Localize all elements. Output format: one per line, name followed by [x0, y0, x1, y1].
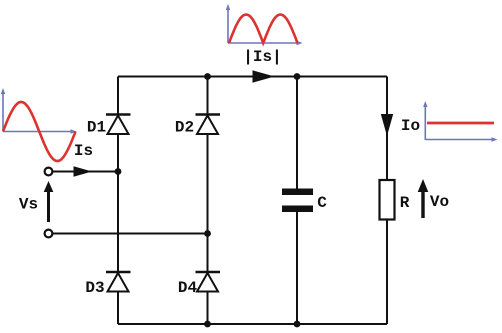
svg-text:D3: D3 — [85, 279, 104, 297]
waveform Io dc line — [427, 122, 494, 125]
svg-text:R: R — [400, 194, 410, 212]
capacitor C plates — [282, 189, 313, 213]
waveform Io axes — [423, 101, 497, 142]
waveform |Is| rectified curve — [229, 15, 298, 44]
voltage arrow Vo — [418, 179, 429, 218]
svg-text:Vo: Vo — [430, 193, 449, 211]
wire resistor branch — [386, 77, 388, 325]
junction node top capacitor branch — [294, 73, 301, 80]
wire input top — [53, 171, 118, 173]
current arrow Is — [74, 166, 93, 177]
diode D2 — [196, 115, 221, 135]
current arrow |Is| on top bus — [253, 70, 275, 82]
diode D1 — [106, 115, 131, 135]
junction node input bottom — [204, 230, 211, 237]
svg-text:Is: Is — [74, 142, 93, 160]
diode D4 — [196, 272, 221, 292]
wire second bridge branch — [207, 77, 209, 325]
wire capacitor branch upper — [296, 77, 298, 190]
wire input bottom — [53, 233, 208, 235]
svg-text:C: C — [317, 194, 327, 212]
junction node bottom D2 branch — [204, 321, 211, 328]
svg-text:Io: Io — [401, 117, 420, 135]
terminal input top — [45, 168, 53, 176]
waveform Vs sine curve — [3, 102, 76, 161]
svg-text:D4: D4 — [178, 279, 198, 297]
terminal input bottom — [45, 230, 53, 238]
svg-text:D2: D2 — [175, 119, 194, 137]
svg-text:Vs: Vs — [19, 196, 38, 214]
wire top bus — [118, 76, 387, 78]
wire bottom bus — [118, 323, 387, 325]
svg-text:D1: D1 — [87, 119, 106, 137]
waveform |Is| axes — [226, 4, 303, 45]
junction node top D2 branch — [204, 73, 211, 80]
junction node bottom capacitor branch — [294, 321, 301, 328]
voltage arrow Vs — [44, 181, 54, 222]
svg-text:|Is|: |Is| — [243, 48, 281, 66]
wire capacitor branch lower — [296, 212, 298, 324]
waveform Vs axes — [1, 88, 77, 134]
wire left bridge branch — [117, 77, 119, 325]
junction node input top — [115, 168, 122, 175]
resistor R — [380, 180, 395, 220]
diode D3 — [106, 272, 131, 292]
current arrow Io — [381, 114, 393, 136]
